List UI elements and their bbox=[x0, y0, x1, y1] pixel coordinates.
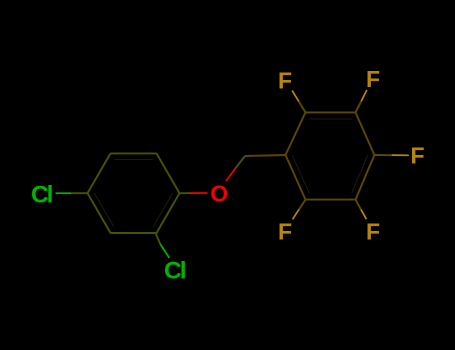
fluorine F-TL bond (C side half) bbox=[299, 101, 306, 112]
wire ring2 edge BR-BL bbox=[306, 199, 356, 201]
fluorine F-TR bond (C side half) bbox=[356, 101, 362, 112]
svg-text:F: F bbox=[278, 218, 292, 244]
fluorine F-BL bond (C side half) bbox=[299, 200, 306, 210]
chlorine Cl1 bond (Cl side half) bbox=[56, 192, 72, 194]
ether oxygen bond ring1-O (C side half) bbox=[180, 192, 192, 194]
wire ring1 edge BL-L bbox=[88, 193, 111, 233]
wire ring1 edge TL-TR bbox=[111, 152, 157, 154]
wire ring2 edge TL-TR bbox=[306, 111, 356, 113]
fluorine F-BR bond (C side half) bbox=[356, 200, 361, 210]
fluorine F-TR bond (F side half) bbox=[361, 90, 367, 101]
wire ring1 double bond right-lower bbox=[153, 193, 173, 227]
wire ring1 edge R-BR bbox=[157, 193, 180, 233]
wire ring2 edge L-TL bbox=[286, 112, 306, 155]
fluorine F-TL bond (F side half) bbox=[292, 91, 299, 102]
fluorine F-BR bond (F side half) bbox=[361, 209, 366, 219]
ether oxygen bond ring1-O (O side half) bbox=[190, 192, 208, 194]
wire ring1 double bond left-lower bbox=[94, 193, 114, 227]
svg-text:F: F bbox=[366, 66, 380, 92]
chlorine Cl1 bond (C side half) bbox=[71, 192, 87, 194]
wire ring2 double bond top bbox=[309, 118, 352, 120]
wire ring1 edge TR-R bbox=[157, 153, 180, 193]
wire ring1 edge L-TL bbox=[88, 153, 111, 193]
chlorine Cl2 bond (Cl side half) bbox=[160, 244, 169, 258]
svg-text:F: F bbox=[366, 218, 380, 244]
wire ring1 double bond top bbox=[114, 158, 153, 160]
wire ring2 edge BL-L bbox=[286, 155, 306, 200]
svg-text:F: F bbox=[278, 68, 292, 94]
benzene ring 1 (2,4-dichlorophenyl) bbox=[88, 153, 180, 233]
svg-text:Cl: Cl bbox=[164, 257, 187, 284]
wire ring2 edge TR-R bbox=[356, 112, 375, 155]
svg-text:F: F bbox=[410, 143, 424, 169]
wire CH2 to ring2 bbox=[245, 155, 286, 156]
benzene ring 2 (pentafluorophenyl) bbox=[286, 112, 375, 199]
ether oxygen bond O-CH2 (O side half) bbox=[226, 169, 235, 182]
wire ring2 double bond left-lower bbox=[292, 155, 309, 193]
svg-text:O: O bbox=[210, 181, 228, 207]
chlorine Cl2 bond (C side half) bbox=[156, 233, 161, 244]
fluorine F-BL bond (F side half) bbox=[293, 209, 300, 219]
wire ring1 edge BR-BL bbox=[111, 232, 157, 234]
wire ring2 double bond right-lower bbox=[352, 155, 368, 193]
wire ring2 edge R-BR bbox=[356, 155, 375, 200]
ether oxygen bond O-CH2 (C side half) bbox=[235, 156, 245, 169]
svg-text:Cl: Cl bbox=[31, 181, 54, 208]
fluorine F-R bond (C side half) bbox=[374, 154, 391, 156]
fluorine F-R bond (F side half) bbox=[392, 154, 409, 156]
